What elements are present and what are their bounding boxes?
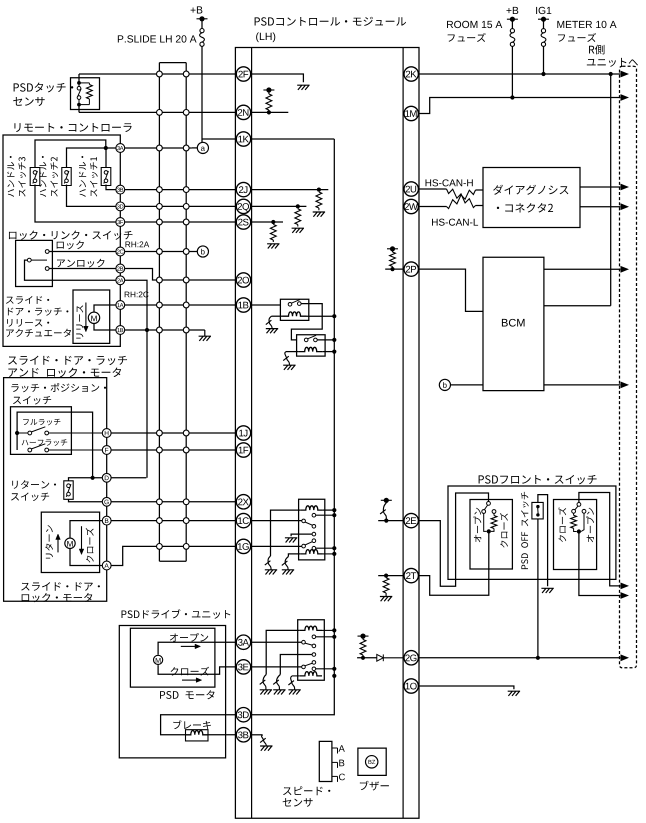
wire: room fuse down to 1M row xyxy=(511,46,513,97)
close direction arrow xyxy=(182,679,197,681)
pin 2J xyxy=(236,182,250,196)
relay K1 coil xyxy=(283,312,307,316)
wire: PSD motor to 3A xyxy=(158,642,236,655)
twisted pair wire 2 xyxy=(447,190,476,209)
wire: 2E stub xyxy=(378,520,404,522)
ground: 2T resistor xyxy=(380,597,392,602)
connector pin 3B xyxy=(116,185,125,194)
wire: diagnosis out 1 xyxy=(580,186,620,188)
pin 2N xyxy=(236,105,250,119)
wire row 3A to node a xyxy=(120,147,192,149)
label: release actuator l3 xyxy=(7,319,49,327)
wire: sw3 bottom to 3F xyxy=(35,185,120,223)
resistor: 2Q xyxy=(295,209,301,225)
wire: D row to ground net riser xyxy=(111,477,146,479)
pin 2O xyxy=(236,273,250,287)
label: diagnosis l1 xyxy=(493,185,568,195)
label: slide door lock motor l2 xyxy=(22,593,93,602)
wire: 3B stub xyxy=(251,734,263,736)
relay K4 coil xyxy=(301,550,323,554)
brake coil xyxy=(186,731,209,735)
pin 2U xyxy=(404,182,418,196)
connector pin G xyxy=(102,497,111,506)
junction: K3 coil/+B bus xyxy=(332,508,336,512)
ground: 2Q xyxy=(292,228,304,233)
wire: K4 contact to ground xyxy=(291,534,316,536)
supply terminal: 2P pull-up xyxy=(387,246,398,251)
label: release actuator l4 xyxy=(6,329,71,337)
junction: K5 coil/+B bus xyxy=(332,628,336,632)
junction: LH switch network xyxy=(487,529,491,533)
touch sensor internal switch xyxy=(78,83,80,87)
connector pin B xyxy=(102,516,111,525)
wire: 2Q stub xyxy=(251,205,307,207)
pin 1K xyxy=(236,132,250,146)
wire: actuator motor to 1B xyxy=(94,324,120,331)
wire: riser into BCM xyxy=(544,305,611,307)
wire: touch sensor top lead xyxy=(78,74,80,83)
module left connector column inner line xyxy=(251,48,253,819)
ground: K4 contact xyxy=(285,538,297,543)
wire: IG1 to meter fuse xyxy=(543,19,545,29)
label: latch position switch l2 xyxy=(13,396,51,405)
pin 2K xyxy=(404,67,418,81)
resistor: 2P pull-up xyxy=(390,252,396,267)
bus top cap xyxy=(159,62,186,64)
label: speed sensor l2 xyxy=(283,798,313,807)
relay K4 armature xyxy=(302,544,306,548)
label: close (vertical) xyxy=(86,528,94,563)
release actuator motor M xyxy=(88,312,99,323)
ground: K3 driver xyxy=(265,570,277,575)
arrow: 2K row into R unit xyxy=(621,71,630,78)
pin 3E xyxy=(236,660,250,674)
label +B (right) xyxy=(506,7,518,14)
lock motor close arrow (down) xyxy=(81,526,83,549)
relay K2 contact xyxy=(304,338,308,342)
wire: 2T stub xyxy=(378,575,404,577)
label: handle switch 2 xyxy=(39,156,58,197)
wire row 1A to pin 1B xyxy=(120,304,236,306)
resistor: 2S xyxy=(270,224,276,240)
wire: actuator motor to 1A xyxy=(94,305,120,312)
label IG1 xyxy=(536,7,551,14)
module right connector column inner line xyxy=(402,48,404,819)
junction: 2N/resistor xyxy=(267,110,271,114)
label: buzzer xyxy=(360,781,389,791)
label: full latch xyxy=(23,419,60,426)
resistor: 2N pull-up xyxy=(266,94,272,110)
wire: PSD motor to 3E xyxy=(158,665,236,674)
wire: switch common to 2A xyxy=(25,260,121,280)
connector pin 1A xyxy=(116,301,125,310)
resistor: 2J xyxy=(316,192,322,208)
open direction arrow xyxy=(181,645,196,647)
relay K1 box xyxy=(280,299,308,320)
wire: K2 coil to driver xyxy=(286,351,299,353)
wire: bus to node a xyxy=(192,147,197,149)
arrow: BCM out top xyxy=(621,266,630,273)
ground: K4 driver xyxy=(282,570,294,575)
supply terminal: 2G pull-up xyxy=(358,634,369,639)
wire row 1M to R unit xyxy=(418,98,620,114)
label: fuse (meter) xyxy=(558,33,596,42)
wire: 1G to K4 common xyxy=(251,545,302,547)
label: release actuator l1 xyxy=(6,296,49,304)
wire: K4 coil to driver xyxy=(288,554,300,557)
PSD OFF switch contacts xyxy=(536,505,539,508)
junction: K2 coil/+B bus xyxy=(332,350,336,354)
wire: LH network to 2T xyxy=(418,531,488,595)
wire row 2C to node b xyxy=(120,251,197,253)
label: diagnosis l2 xyxy=(497,203,553,212)
pin 2S xyxy=(236,215,250,229)
wire: +B feed to pin 1K xyxy=(202,138,236,140)
resistor: LH close xyxy=(491,516,497,529)
label: P.SLIDE LH 20 A xyxy=(118,35,197,42)
left harness bus line 1 xyxy=(158,63,160,562)
junction: 2K row/BCM riser xyxy=(609,72,613,76)
wire: 2W stub xyxy=(418,206,446,208)
pin 1J xyxy=(236,426,250,440)
wire: RH common to R unit xyxy=(579,493,620,586)
PSD front switch outer box xyxy=(448,486,616,579)
connector pin D xyxy=(102,473,111,482)
resistor: 2G pull-up xyxy=(360,640,366,656)
full latch switch xyxy=(17,432,28,434)
wire: 2P to BCM xyxy=(418,269,483,311)
wire: 2P stub xyxy=(385,268,404,270)
label: PSD control module xyxy=(255,17,406,26)
arrow: BCM out bottom xyxy=(621,382,630,389)
label: latch position switch l1 xyxy=(11,383,106,392)
latch position switch box xyxy=(11,407,72,455)
label: half latch xyxy=(22,439,68,446)
node b (left) xyxy=(197,246,208,257)
wire: pair into diagnosis connector xyxy=(476,190,484,206)
handle switch 3 xyxy=(30,168,40,186)
slide door lock motor inner box xyxy=(41,512,99,572)
pin 2W xyxy=(404,199,418,213)
wire: 3D to brake xyxy=(161,715,237,735)
relay K4 ground contact xyxy=(312,532,316,536)
label: BCM xyxy=(502,319,525,327)
pin 1O xyxy=(404,679,418,693)
label: lock xyxy=(57,241,84,250)
label: slide door lock motor l1 xyxy=(21,582,100,591)
wire: return switch to G row xyxy=(69,499,103,502)
label: (LH) xyxy=(256,32,275,42)
handle switch 1 xyxy=(101,168,111,186)
wire row D to return switch xyxy=(69,478,103,481)
wire row 2K to R unit xyxy=(418,73,620,75)
resistor: RH close xyxy=(571,515,577,528)
buzzer box xyxy=(358,748,386,775)
ground: 3B driver xyxy=(260,746,272,751)
label: brake xyxy=(173,720,211,729)
relay K6 ground contact xyxy=(312,653,316,657)
label: lock link switch xyxy=(9,231,133,240)
lock link switch box xyxy=(16,240,53,286)
wire: +B to room fuse xyxy=(511,19,513,29)
label: fuse (room) xyxy=(448,33,486,42)
pin 2T xyxy=(404,568,418,582)
wire row 3D to pin 2Q xyxy=(120,205,236,207)
half latch switch xyxy=(28,448,32,452)
arrow: 2G row into R unit xyxy=(621,654,630,661)
wire: 2K row down to BCM xyxy=(610,74,612,306)
wire row 1B to ground xyxy=(120,329,205,331)
wire: K5 coil to driver xyxy=(266,630,300,674)
R-side unit dashed box xyxy=(620,66,637,668)
relay K5/K6 box xyxy=(298,620,325,680)
wire row A jog to pin 1G xyxy=(107,546,237,565)
wire row H to pin 1J xyxy=(107,432,237,434)
label: METER 10 A xyxy=(557,21,616,28)
ground: 2J xyxy=(313,212,325,217)
junction: 2J/resistor xyxy=(317,188,321,192)
wire: K1 coil to driver xyxy=(271,315,282,317)
label: PSD motor xyxy=(160,690,214,699)
left harness bus line 2 xyxy=(185,63,187,562)
bus in-line connector rings xyxy=(157,71,190,549)
label: return (vertical) xyxy=(45,525,53,558)
junction: common rail / H row xyxy=(15,431,19,435)
junction: 2Q/resistor xyxy=(296,204,300,208)
driver transistor: K3 xyxy=(265,556,271,570)
connector pin 1B xyxy=(116,326,125,335)
LH switch contacts xyxy=(482,510,486,514)
wire row 3B to pin 2J xyxy=(120,189,236,191)
pin 3B xyxy=(236,728,250,742)
relay K2 coil xyxy=(299,347,323,351)
wire: sw1 bottom to 3B xyxy=(106,185,120,190)
junction: K2 contact/+B bus xyxy=(332,338,336,342)
connector pin H xyxy=(102,429,111,438)
driver transistor: K4 xyxy=(282,557,289,570)
return switch xyxy=(64,481,73,500)
driver transistor: 3B brake xyxy=(260,735,266,746)
relay K1 contact xyxy=(288,303,292,307)
fuse METER 10A xyxy=(541,29,546,47)
relay K4 contact NO xyxy=(312,546,316,550)
label: and lock motor xyxy=(8,368,121,378)
ground: K5 driver xyxy=(260,690,272,695)
label: connector RH:2A xyxy=(125,241,149,247)
brake coil box xyxy=(186,730,209,741)
LH switch common xyxy=(487,502,491,506)
wire: K3 coil to +B bus xyxy=(323,509,334,511)
RH switch common xyxy=(577,503,581,507)
junction: room fuse/1M row xyxy=(510,95,514,99)
label: remote controller xyxy=(14,123,131,132)
wire: BCM out top xyxy=(544,268,620,270)
wire: diagnosis out 2 xyxy=(580,206,620,208)
label: close (LH vertical) xyxy=(500,513,508,548)
label: return switch l1 xyxy=(12,480,56,489)
label: open (LH vertical) xyxy=(474,508,482,543)
wire row 2N: sensor to module xyxy=(79,111,236,113)
wire: K2 contact to +B bus xyxy=(317,339,334,341)
relay K5 coil xyxy=(300,626,322,630)
supply terminal: 2E driver xyxy=(381,498,392,503)
pin 1C xyxy=(236,513,250,527)
fuse ROOM 15A xyxy=(510,29,515,47)
relay K6 contact NO xyxy=(312,667,316,671)
pin 2E xyxy=(404,513,418,527)
wire: K6 mid contact to driver xyxy=(280,655,314,675)
label: PSD OFF switch (vertical) xyxy=(521,492,529,569)
ground: 2F xyxy=(297,85,309,90)
wire: K1 contact to K2 contact (jog) xyxy=(291,304,322,340)
wire row B to pin 1C xyxy=(107,520,237,522)
label: close (RH vertical) xyxy=(558,507,566,542)
wire: RH network to R unit xyxy=(579,532,620,596)
wire: touch sensor bottom lead xyxy=(78,105,80,113)
label: R side xyxy=(589,45,604,55)
wire row 1O to ground xyxy=(418,686,514,689)
remote controller / door assembly box xyxy=(3,135,120,346)
junction: IG1/2K row xyxy=(541,72,545,76)
release actuator inner box xyxy=(73,290,110,343)
wire: K2 coil right to +B bus xyxy=(323,351,335,353)
lock link switch contacts xyxy=(45,250,49,254)
resistor: 2T pull-down xyxy=(383,578,389,593)
BCM box xyxy=(483,257,544,390)
wire: sw2 bottom to 3D xyxy=(67,185,121,207)
connector pin 2B xyxy=(116,264,125,273)
relay K3 contact NO xyxy=(312,513,316,517)
PSD drive unit outer box xyxy=(119,626,225,758)
label: ROOM 15 A xyxy=(447,21,502,28)
junction: sensor top xyxy=(77,81,81,85)
junction: 2P/resistor xyxy=(390,267,394,271)
connector pin 3F xyxy=(116,218,125,227)
pin 2Q xyxy=(236,199,250,213)
front switch LH box xyxy=(470,500,512,570)
+B supply terminal (left) xyxy=(197,16,208,21)
wire: 1K to internal +B bus xyxy=(251,138,334,140)
label: release (vertical) xyxy=(76,305,83,338)
handle switch 2 xyxy=(62,168,71,186)
touch sensor box xyxy=(71,78,100,110)
connector pin 3D xyxy=(116,202,125,211)
node a xyxy=(197,142,208,153)
label: PSD drive unit xyxy=(122,609,231,619)
ground: PSD OFF switch xyxy=(541,588,553,593)
speed sensor pins A B C xyxy=(332,747,338,749)
wire: 3A to K5 common xyxy=(251,641,302,643)
internal +B bus / 3D return xyxy=(251,139,334,715)
label: close xyxy=(171,667,210,676)
driver transistor: K6 xyxy=(288,676,294,690)
arrow: RH common out xyxy=(621,583,630,590)
wire: OFF switch to ground xyxy=(538,495,548,587)
wire: OFF switch to 2G row xyxy=(537,519,539,658)
label +B (left) xyxy=(191,6,203,13)
wire: 2G stub xyxy=(357,657,377,659)
node b (right) xyxy=(439,379,450,390)
pin 1F xyxy=(236,443,250,457)
bus bottom cap xyxy=(159,560,186,562)
PSD motor inner box xyxy=(130,628,215,687)
driver transistor: K2 xyxy=(283,352,289,366)
front switch RH box xyxy=(554,500,597,570)
driver transistor: K6mid xyxy=(273,675,280,690)
wire: RH open contact to node xyxy=(581,513,584,531)
lock motor M xyxy=(65,538,75,548)
ground: door latch common xyxy=(199,330,211,341)
connector pin F xyxy=(102,446,111,455)
twisted pair wire 1 xyxy=(447,189,476,208)
wire: meter fuse down to 2K row xyxy=(543,46,545,74)
diode: 2G xyxy=(377,654,384,661)
arrow: RH network out xyxy=(621,592,630,599)
wire: sw2 top along 3A row xyxy=(67,148,121,168)
wire: node b to BCM xyxy=(451,384,484,386)
slide door latch and lock motor box xyxy=(4,378,107,602)
label: PSD touch sensor line2 xyxy=(13,97,44,106)
junction: K6 coil/+B bus xyxy=(332,674,336,678)
diagnosis connector 2 box xyxy=(483,168,580,228)
fuse P.SLIDE LH 20A xyxy=(200,29,205,47)
relay K6 armature xyxy=(302,665,306,669)
junction: sensor bottom xyxy=(77,103,81,107)
wire row 3F to pin 2S xyxy=(120,221,236,223)
+B supply terminal (right) xyxy=(507,17,518,22)
junction: 2S/resistor xyxy=(271,220,275,224)
lock motor return arrow (up) xyxy=(57,539,59,552)
supply terminal: 2N pull-up xyxy=(263,87,274,92)
label: HS-CAN-H xyxy=(426,179,473,186)
label: open xyxy=(170,633,208,642)
label: speed sensor l1 xyxy=(283,786,330,795)
relay K5 contact NO xyxy=(312,635,316,639)
label: return switch l2 xyxy=(11,492,49,501)
pin 2F xyxy=(236,67,250,81)
connector pin A xyxy=(102,561,111,570)
label: unlock xyxy=(57,259,104,268)
junction: K1 coil/+B bus xyxy=(332,314,336,318)
arrow: diagnosis out 1 xyxy=(621,184,630,191)
buzzer BZ circle xyxy=(366,756,378,768)
relay K3 coil xyxy=(301,506,323,510)
relay K2 box xyxy=(297,335,326,356)
label: connector RH:2C xyxy=(125,292,149,298)
label: open (RH vertical) xyxy=(586,508,594,543)
wire: 1B to relay K1 xyxy=(251,304,281,306)
ground: K6mid driver xyxy=(273,690,285,695)
wire: brake to 3B xyxy=(208,734,236,736)
connector pin 2C xyxy=(116,247,125,256)
wire: 2A down to latch common junction xyxy=(120,280,147,478)
junction: RH switch network xyxy=(577,529,581,533)
PSD motor M xyxy=(154,655,163,664)
pin 3A xyxy=(236,635,250,649)
wire: +B to fuse xyxy=(201,19,203,29)
connector pin 2A xyxy=(116,276,125,285)
wire: latch switch common rail xyxy=(17,412,93,478)
wire: sw3 top to 3A node xyxy=(35,140,106,168)
RH switch contacts xyxy=(572,509,576,513)
junction: OFF switch/2G row xyxy=(536,656,540,660)
junction: K4 coil/+B bus xyxy=(332,552,336,556)
wire: K1 coil to +B bus xyxy=(307,315,335,317)
label: slide door latch xyxy=(8,356,127,365)
junction: handle switch common xyxy=(104,146,108,150)
pin 2X xyxy=(236,495,250,509)
label: release actuator l2 xyxy=(8,308,69,316)
